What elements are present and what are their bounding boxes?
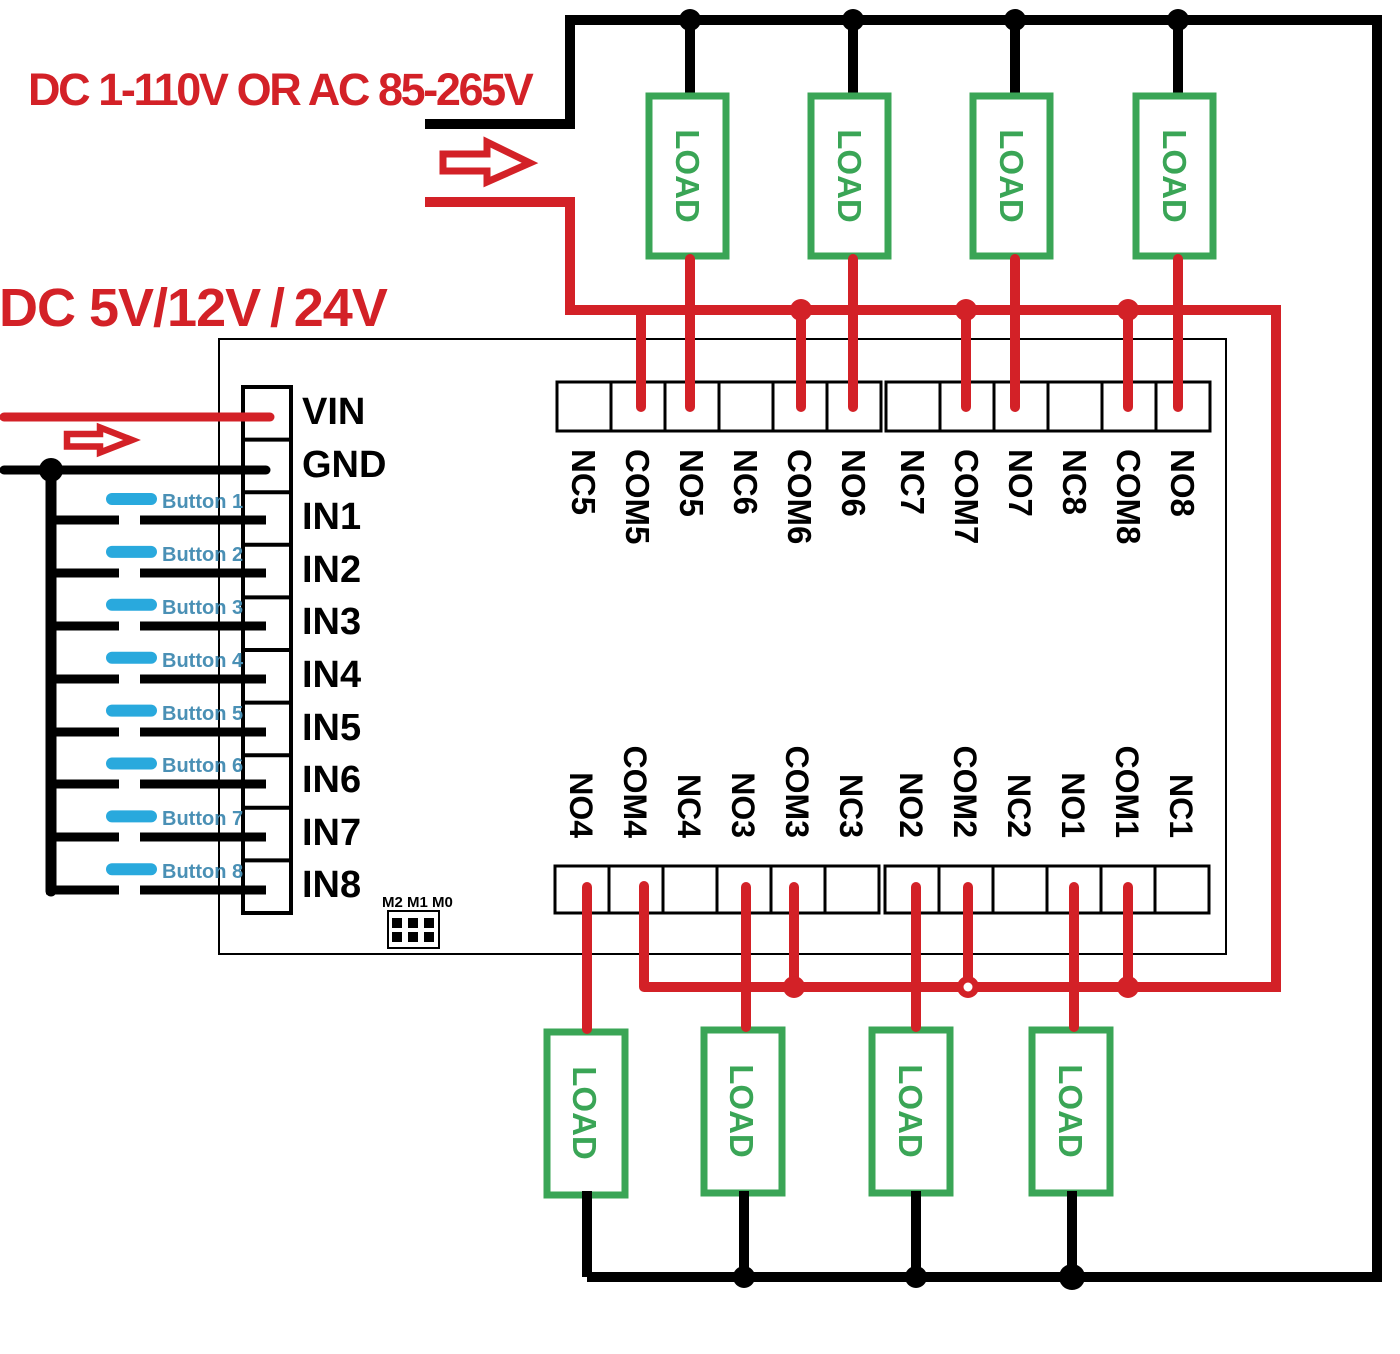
junction: GND node	[39, 458, 63, 482]
svg-text:LOAD: LOAD	[669, 129, 706, 223]
svg-text:Button 3: Button 3	[162, 597, 243, 619]
wire: black drop to top LOAD 2	[848, 20, 858, 99]
switch: Button 6 row wires	[46, 780, 266, 789]
svg-text:IN7: IN7	[302, 812, 361, 854]
switch: Button 3 row wires	[46, 622, 266, 631]
junction: red top bus node COM6	[790, 299, 812, 321]
wire: red NO3 to bottom LOAD 2	[741, 887, 751, 1027]
wire: black drop to top LOAD 4	[1173, 20, 1183, 99]
wire: red COM1 drop to bottom bus	[1123, 887, 1133, 987]
wire: red live feed + COM bus (top and bottom, right riser)	[425, 202, 1276, 987]
load: bottom LOAD 2	[704, 1030, 782, 1193]
junction: top bus node 3	[1004, 9, 1026, 31]
load: bottom LOAD 4	[1032, 1030, 1110, 1193]
svg-text:M2 M1 M0: M2 M1 M0	[382, 894, 453, 911]
svg-text:Button 7: Button 7	[162, 808, 243, 830]
svg-text:LOAD: LOAD	[993, 129, 1030, 223]
wire: red COM4 riser to bottom bus	[639, 886, 649, 987]
wire: red COM2 drop to bottom bus	[963, 887, 973, 987]
button 7 cap	[106, 810, 157, 822]
svg-text:Button 2: Button 2	[162, 544, 243, 566]
wire: black drop to top LOAD 1	[685, 20, 695, 99]
svg-text:NO8: NO8	[1164, 449, 1201, 517]
svg-text:IN6: IN6	[302, 759, 361, 801]
svg-text:NO3: NO3	[725, 772, 761, 838]
switch: Button 7 row wires	[46, 833, 266, 842]
switch: Button 5 row wires	[46, 728, 266, 737]
svg-text:Button 1: Button 1	[162, 491, 243, 513]
svg-text:COM6: COM6	[781, 449, 818, 544]
button 5 cap	[106, 705, 157, 717]
button 3 cap	[106, 599, 157, 611]
wire: red NO2 to bottom LOAD 3	[911, 887, 921, 1027]
wire: black button common bus	[46, 470, 57, 891]
switch: Button 8 row wires	[46, 886, 266, 895]
svg-text:NC1: NC1	[1163, 774, 1199, 838]
load: bottom LOAD 3	[872, 1030, 950, 1193]
wire: black return from bottom LOAD 1	[582, 1191, 592, 1277]
svg-text:Button 5: Button 5	[162, 703, 243, 725]
svg-text:Button 6: Button 6	[162, 755, 243, 777]
junction: top bus node 4	[1167, 9, 1189, 31]
svg-text:GND: GND	[302, 444, 386, 486]
svg-text:COM2: COM2	[947, 746, 983, 838]
svg-text:IN5: IN5	[302, 707, 361, 749]
wire: red VIN feed	[4, 413, 270, 422]
wire: red NO8 from LOAD 4	[1173, 259, 1183, 407]
wire: red NO4 to bottom LOAD 1	[582, 887, 592, 1029]
wire: black mains bus (top, right side, bottom return)	[425, 20, 1377, 1277]
wire: red COM8 drop	[1123, 310, 1133, 407]
top strip labels NC5..NO8 (rotated)	[565, 449, 1201, 544]
svg-text:NO5: NO5	[673, 449, 710, 517]
wire: red COM7 drop	[961, 310, 971, 407]
arrow: AC feed direction	[443, 142, 530, 182]
junction: top bus node 2	[842, 9, 864, 31]
junction: red top bus node COM7	[955, 299, 977, 321]
svg-text:NC6: NC6	[727, 449, 764, 515]
button 6 cap	[106, 758, 157, 770]
junction: red bottom bus node COM1	[1117, 976, 1139, 998]
svg-text:IN2: IN2	[302, 549, 361, 591]
jumper block M2 M1 M0	[382, 894, 453, 948]
svg-text:LOAD: LOAD	[723, 1064, 760, 1158]
svg-text:NO6: NO6	[835, 449, 872, 517]
svg-text:IN8: IN8	[302, 864, 361, 906]
svg-text:LOAD: LOAD	[1156, 129, 1193, 223]
svg-text:COM4: COM4	[617, 746, 653, 839]
svg-text:COM3: COM3	[779, 746, 815, 838]
terminal block: left input column (VIN,GND,IN1-IN8)	[243, 387, 291, 913]
svg-text:DC 5V/12V / 24V: DC 5V/12V / 24V	[0, 278, 388, 338]
svg-text:NC7: NC7	[894, 449, 931, 515]
svg-text:Button 8: Button 8	[162, 861, 243, 883]
junction: red bottom bus node COM2	[957, 976, 979, 998]
junction: bottom bus node 3	[905, 1266, 927, 1288]
wire: red NO1 to bottom LOAD 4	[1069, 887, 1079, 1027]
junction: top bus node 1	[679, 9, 701, 31]
wire: black GND feed	[4, 466, 266, 475]
svg-text:NC3: NC3	[833, 774, 869, 838]
svg-text:LOAD: LOAD	[566, 1066, 603, 1160]
terminal strip: top relay outputs (NC5..NO8)	[557, 382, 1210, 431]
wire: red NO6 from LOAD 2	[848, 259, 858, 407]
pin labels VIN GND IN1-IN8	[302, 391, 386, 906]
junction: bottom bus node 2	[733, 1266, 755, 1288]
svg-text:LOAD: LOAD	[892, 1064, 929, 1158]
svg-text:COM1: COM1	[1109, 746, 1145, 838]
button 2 cap	[106, 546, 157, 558]
terminal strip: bottom relay outputs (NO4..NC1)	[555, 866, 1209, 913]
svg-text:COM8: COM8	[1110, 449, 1147, 544]
svg-text:DC 1-110V OR AC 85-265V: DC 1-110V OR AC 85-265V	[28, 64, 534, 115]
arrow: DC feed direction	[67, 428, 132, 453]
wire: red COM3 drop to bottom bus	[789, 887, 799, 987]
button 1 cap	[106, 493, 157, 505]
svg-text:NC5: NC5	[565, 449, 602, 515]
svg-text:COM7: COM7	[948, 449, 985, 544]
svg-text:LOAD: LOAD	[1052, 1064, 1089, 1158]
load: top LOAD 4	[1136, 96, 1213, 256]
junction: bottom bus node 4	[1059, 1264, 1085, 1290]
switch: Button 4 row wires	[46, 675, 266, 684]
load: top LOAD 1	[649, 96, 726, 256]
bottom strip labels NO4..NC1 (rotated)	[563, 746, 1199, 839]
svg-text:Button 4: Button 4	[162, 650, 244, 672]
svg-text:NO2: NO2	[893, 772, 929, 838]
svg-text:NC4: NC4	[671, 774, 707, 838]
switch: Button 1 row wires	[46, 516, 266, 525]
wire: black return from bottom LOAD 3	[911, 1191, 921, 1277]
button 4 cap	[106, 652, 157, 664]
load: bottom LOAD 1	[547, 1032, 625, 1195]
svg-text:IN4: IN4	[302, 654, 361, 696]
svg-text:NC8: NC8	[1056, 449, 1093, 515]
load: top LOAD 2	[811, 96, 888, 256]
junction: red top bus node COM8	[1117, 299, 1139, 321]
relay module outline	[219, 339, 1226, 954]
wire: red NO5 from LOAD 1	[685, 259, 695, 407]
junction: red bottom bus node COM3	[783, 976, 805, 998]
svg-text:VIN: VIN	[302, 391, 365, 433]
wire: black return from bottom LOAD 2	[739, 1191, 749, 1277]
wire: red COM6 drop	[796, 310, 806, 407]
wire: black return from bottom LOAD 4	[1067, 1191, 1077, 1277]
svg-text:IN1: IN1	[302, 496, 361, 538]
switch: Button 2 row wires	[46, 569, 266, 578]
svg-text:NO7: NO7	[1002, 449, 1039, 517]
wire: red NO7 from LOAD 3	[1010, 259, 1020, 407]
button 8 cap	[106, 863, 157, 875]
svg-text:LOAD: LOAD	[831, 129, 868, 223]
wire: red COM5 drop	[636, 310, 646, 407]
svg-text:NO4: NO4	[563, 772, 599, 838]
load: top LOAD 3	[973, 96, 1050, 256]
svg-text:NC2: NC2	[1001, 774, 1037, 838]
svg-text:IN3: IN3	[302, 601, 361, 643]
wire: black drop to top LOAD 3	[1010, 20, 1020, 99]
svg-text:NO1: NO1	[1055, 772, 1091, 838]
svg-text:COM5: COM5	[619, 449, 656, 544]
